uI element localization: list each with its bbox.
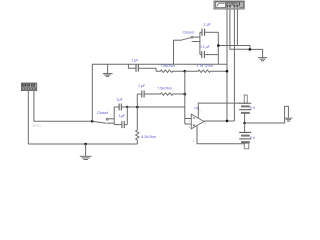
capacitor C1 (136, 65, 156, 72)
inverting input lead (185, 118, 192, 120)
wire drop to feedback dot (226, 64, 228, 71)
switch S2 (92, 118, 114, 123)
resistor R1 (156, 70, 185, 72)
battery mid junction dot (243, 122, 246, 125)
jog down to row1 level (155, 68, 157, 71)
junction dot A (126, 106, 128, 108)
resistor R2 feedback (185, 70, 227, 72)
resistor R4 vertical (136, 130, 139, 140)
pin number marks (189, 109, 207, 143)
battery B2 (239, 123, 251, 149)
svg-text:1 µF: 1 µF (204, 23, 212, 27)
right riser joining CA CB (126, 107, 128, 125)
svg-text:9 V: 9 V (250, 136, 256, 140)
svg-text:1 M Ohm: 1 M Ohm (197, 64, 214, 68)
svg-text:7.5kOhm: 7.5kOhm (157, 87, 172, 91)
svg-text:7.5kOhm: 7.5kOhm (161, 64, 176, 68)
scope wire 4 down to trigger wire (236, 9, 238, 46)
vertical from C3 right lead through dot1 down to main wire (217, 32, 219, 64)
junction dot1 (217, 44, 220, 47)
vertical row2 corner through dot B down to R4 (136, 94, 138, 130)
FG right wire down and right to switch node (34, 91, 92, 122)
wire from dot1 junction to right ground G1 (218, 46, 262, 58)
svg-text:1 µF: 1 µF (138, 84, 146, 88)
ground G2 (80, 156, 92, 159)
svg-text:Closed: Closed (97, 111, 108, 115)
capacitor CB (114, 121, 127, 128)
ground G4 (284, 118, 292, 121)
bottom power pin to V- rail (197, 126, 245, 144)
capacitor C4 (200, 51, 218, 58)
resistor R3 (145, 93, 185, 95)
capacitor C2 on row2 (137, 91, 144, 98)
op-amp U1 (191, 114, 204, 129)
switch S1 (174, 36, 200, 41)
ground G2 dot (84, 143, 87, 146)
svg-text:1µF: 1µF (119, 114, 126, 118)
ground G1 (258, 58, 267, 61)
oscilloscope XSC1 icon (214, 1, 244, 9)
capacitor CA (114, 104, 127, 111)
scope wire 2 down then right to ground node (230, 9, 250, 49)
junction dot2 (249, 48, 252, 51)
svg-text:XFG1: XFG1 (32, 124, 41, 128)
wire from node S up and right: main top wire (92, 64, 227, 121)
switch S1 left riser down to main wire (173, 40, 175, 64)
ground G2 stub (85, 144, 87, 156)
top power pin to V+ rail (198, 103, 240, 118)
battery B1 (239, 95, 251, 123)
svg-text:0.1 µF: 0.1 µF (200, 45, 211, 49)
FG left wire down to bottom bus (27, 91, 29, 144)
junction dot row2 (184, 93, 187, 96)
junction dot row1 (184, 70, 187, 73)
non-inverting input lead (185, 123, 192, 125)
function generator XFG1 icon (21, 83, 37, 91)
riser joining C3 and C4 left plates, switch contact (199, 32, 201, 54)
scope wire 1 down to output node (226, 9, 228, 121)
wire caps node to op-amp riser (127, 106, 185, 108)
scope wire 3 down to output wire corner (233, 9, 235, 121)
left riser joining CA CB (113, 107, 115, 125)
output wire (204, 120, 234, 122)
output junction dot (226, 120, 229, 123)
ground G5 (103, 74, 113, 77)
junction dot feedback node (226, 70, 229, 73)
ground G5 stub (107, 64, 109, 73)
svg-text:1µF: 1µF (117, 97, 124, 101)
capacitor C3 (200, 29, 218, 36)
bottom bus wire B (28, 143, 137, 145)
R4 bottom lead (136, 140, 138, 144)
svg-text:Closed: Closed (183, 30, 194, 34)
junction dot B (136, 106, 139, 109)
svg-text:1 µF: 1 µF (131, 59, 139, 63)
wire battery mid junction to ground G4 (245, 106, 289, 123)
main riser row1 to op-amp inputs (184, 71, 186, 124)
svg-text:8.2kOhm: 8.2kOhm (141, 135, 156, 139)
node S junction dot (91, 120, 94, 123)
tap down to C1 (128, 64, 135, 68)
